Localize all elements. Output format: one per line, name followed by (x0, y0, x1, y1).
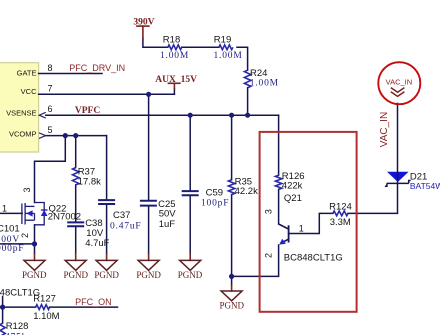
svg-text:Q21: Q21 (284, 193, 302, 204)
svg-text:R124: R124 (329, 202, 352, 213)
svg-text:1.10M: 1.10M (33, 311, 59, 322)
svg-text:1uF: 1uF (159, 219, 176, 230)
svg-text:2: 2 (264, 253, 274, 258)
svg-text:PGND: PGND (220, 301, 245, 311)
svg-text:BAT54W: BAT54W (410, 181, 440, 191)
svg-text:422k: 422k (282, 181, 303, 192)
svg-text:390V: 390V (133, 18, 154, 28)
svg-text:1000pF: 1000pF (0, 244, 24, 254)
svg-text:PFC_ON: PFC_ON (75, 297, 112, 307)
svg-text:BC848CLT1G: BC848CLT1G (0, 288, 40, 299)
svg-text:C59: C59 (206, 187, 223, 198)
svg-text:PGND: PGND (136, 270, 161, 280)
svg-text:0.47uF: 0.47uF (110, 221, 141, 231)
svg-text:1.00M: 1.00M (250, 78, 279, 88)
svg-text:6: 6 (47, 104, 52, 114)
svg-text:VSENSE: VSENSE (6, 108, 36, 117)
svg-text:8: 8 (47, 63, 52, 73)
svg-text:3.3M: 3.3M (330, 217, 351, 228)
svg-text:PGND: PGND (178, 270, 203, 280)
svg-text:R19: R19 (214, 35, 231, 46)
svg-text:VPFC: VPFC (75, 106, 100, 116)
svg-text:BC848CLT1G: BC848CLT1G (284, 253, 343, 264)
svg-text:PGND: PGND (22, 270, 47, 280)
svg-text:7: 7 (47, 84, 52, 94)
svg-text:R24: R24 (250, 68, 267, 79)
svg-text:100pF: 100pF (201, 199, 229, 209)
svg-text:17.8k: 17.8k (78, 176, 101, 187)
svg-text:AUX_15V: AUX_15V (155, 75, 197, 85)
svg-text:C101: C101 (0, 223, 20, 234)
svg-text:3: 3 (263, 209, 273, 214)
svg-text:VCOMP: VCOMP (9, 129, 37, 138)
svg-text:R18: R18 (163, 35, 180, 46)
svg-text:42.2k: 42.2k (235, 186, 258, 197)
svg-text:PFC_DRV_IN: PFC_DRV_IN (69, 63, 125, 73)
svg-text:1.00M: 1.00M (214, 51, 243, 61)
svg-text:1: 1 (2, 204, 7, 214)
svg-text:1.00M: 1.00M (160, 51, 189, 61)
svg-text:5: 5 (47, 125, 52, 135)
svg-text:C37: C37 (113, 210, 130, 221)
svg-text:GATE: GATE (17, 69, 37, 78)
svg-text:VAC_IN: VAC_IN (379, 112, 390, 147)
svg-text:VAC_IN: VAC_IN (386, 77, 413, 86)
svg-text:2: 2 (20, 233, 30, 238)
svg-text:VCC: VCC (21, 87, 37, 96)
svg-text:2N7002: 2N7002 (48, 212, 81, 223)
svg-text:PGND: PGND (63, 270, 88, 280)
svg-text:R128: R128 (6, 321, 29, 332)
svg-text:3: 3 (22, 187, 32, 192)
svg-text:PGND: PGND (94, 270, 119, 280)
svg-text:1: 1 (299, 224, 304, 234)
svg-text:4.7uF: 4.7uF (85, 238, 109, 249)
